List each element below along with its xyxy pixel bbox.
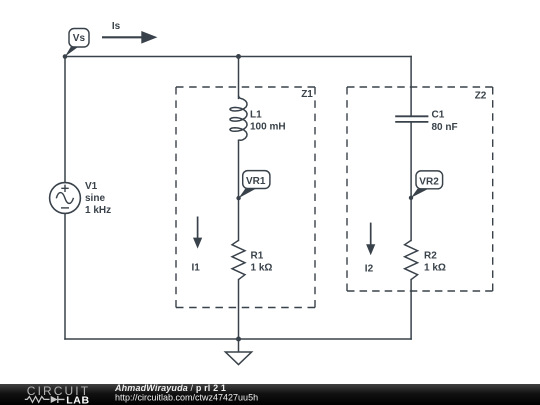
svg-text:Vs: Vs bbox=[73, 33, 86, 44]
ground bbox=[225, 339, 251, 365]
resistor R2 bbox=[405, 240, 446, 279]
svg-text:AhmadWirayuda / p rl 2 1: AhmadWirayuda / p rl 2 1 bbox=[114, 383, 226, 393]
impedance box Z2 bbox=[347, 87, 493, 291]
current arrow I2 bbox=[365, 223, 376, 275]
svg-text:1 kΩ: 1 kΩ bbox=[424, 263, 446, 274]
wire bbox=[65, 338, 411, 340]
svg-text:C1: C1 bbox=[432, 109, 445, 120]
svg-text:Is: Is bbox=[112, 21, 121, 32]
current arrow Is bbox=[102, 21, 157, 44]
wire bbox=[238, 57, 240, 99]
svg-text:80 nF: 80 nF bbox=[432, 122, 458, 133]
node junction top bbox=[236, 54, 241, 59]
svg-text:I1: I1 bbox=[192, 263, 201, 274]
impedance box Z1 bbox=[176, 87, 315, 308]
voltage source V1 bbox=[50, 181, 112, 216]
footer text bbox=[114, 383, 258, 403]
svg-text:R1: R1 bbox=[251, 251, 264, 262]
probe callout VR2 bbox=[409, 171, 443, 200]
CircuitLab logo bbox=[25, 384, 90, 405]
svg-text:1 kHz: 1 kHz bbox=[85, 205, 111, 216]
wire bbox=[410, 122, 412, 240]
footer bar bbox=[0, 384, 540, 405]
svg-text:LAB: LAB bbox=[66, 394, 89, 405]
wire bbox=[410, 280, 412, 339]
probe callout VR1 bbox=[236, 171, 269, 201]
node junction bottom bbox=[236, 337, 241, 342]
svg-text:L1: L1 bbox=[250, 110, 262, 121]
wire bbox=[238, 280, 240, 339]
current arrow I1 bbox=[192, 217, 203, 274]
svg-text:Z2: Z2 bbox=[475, 90, 487, 101]
svg-text:100 mH: 100 mH bbox=[250, 122, 286, 133]
svg-text:R2: R2 bbox=[424, 251, 437, 262]
wire bbox=[238, 140, 240, 240]
svg-text:Z1: Z1 bbox=[301, 89, 313, 100]
svg-text:VR1: VR1 bbox=[246, 176, 266, 187]
wire bbox=[65, 56, 411, 58]
wire bbox=[410, 57, 412, 117]
svg-text:I2: I2 bbox=[365, 264, 374, 275]
wire bbox=[64, 213, 66, 339]
svg-text:http://circuitlab.com/ctwz4742: http://circuitlab.com/ctwz47427uu5h bbox=[115, 393, 258, 403]
capacitor C1 bbox=[395, 109, 457, 133]
probe callout Vs bbox=[63, 29, 89, 59]
inductor L1 bbox=[230, 96, 286, 141]
resistor R1 bbox=[232, 240, 272, 279]
svg-text:1 kΩ: 1 kΩ bbox=[251, 263, 273, 274]
svg-text:V1: V1 bbox=[85, 181, 98, 192]
svg-text:VR2: VR2 bbox=[419, 176, 439, 187]
svg-text:sine: sine bbox=[85, 193, 105, 204]
wire bbox=[64, 57, 66, 183]
